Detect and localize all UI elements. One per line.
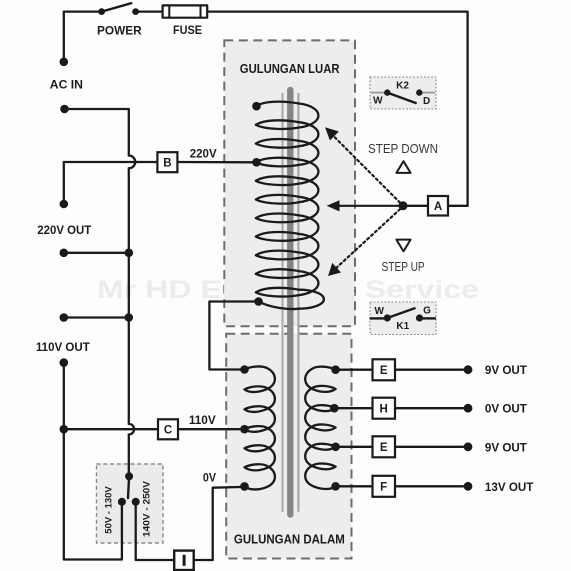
svg-text:W: W xyxy=(374,306,384,317)
terminal dot 9V OUT row2 xyxy=(464,442,473,451)
svg-text:F: F xyxy=(380,482,387,494)
power switch right contact dot xyxy=(132,8,139,15)
arrowhead of solid tap arrow xyxy=(327,200,340,211)
transformer core lamination right thin bar xyxy=(297,93,299,512)
wire: 0V tap to H box xyxy=(334,407,372,409)
step-up triangle symbol xyxy=(396,240,410,252)
wire hop: center rail over 110V wire xyxy=(129,424,134,435)
selector contact dot 140V-250V xyxy=(132,498,140,506)
inner right coil 9V tap dot row2 xyxy=(331,443,340,452)
junction dot center rail 220V row xyxy=(125,249,134,258)
inner left coil top tap dot xyxy=(240,365,249,374)
wire: 220V line from 220V OUT tee to B box xyxy=(64,162,158,204)
svg-text:50V - 130V: 50V - 130V xyxy=(104,486,115,534)
inner winding right coil xyxy=(305,367,335,489)
svg-text:140V - 250V: 140V - 250V xyxy=(142,480,153,537)
inner right coil 13V tap dot xyxy=(331,482,340,491)
wire: power switch to fuse xyxy=(136,10,163,12)
terminal box H xyxy=(373,398,396,419)
terminal dot 110V OUT lower xyxy=(60,358,69,367)
svg-text:GULUNGAN DALAM: GULUNGAN DALAM xyxy=(234,532,345,547)
terminal box E row1 xyxy=(373,359,396,380)
power switch left contact dot xyxy=(98,8,105,15)
wire: C box to inner coil 110V tap xyxy=(178,428,245,430)
svg-text:K1: K1 xyxy=(396,321,409,332)
svg-text:A: A xyxy=(434,201,442,213)
wire: left rail from 110V OUT lower terminal to bottom xyxy=(64,363,122,560)
outer winding coil xyxy=(256,102,324,309)
inner right coil 9V tap dot row1 xyxy=(331,365,340,374)
power switch lever xyxy=(102,3,132,11)
svg-text:B: B xyxy=(163,158,171,170)
svg-text:G: G xyxy=(423,306,431,317)
inner winding left coil xyxy=(245,366,275,489)
svg-text:220V OUT: 220V OUT xyxy=(37,223,92,237)
wire: H box to 0V OUT terminal xyxy=(395,407,468,409)
inner left coil 110V tap dot xyxy=(240,425,249,434)
voltage selector dashed box xyxy=(97,464,164,543)
svg-text:9V OUT: 9V OUT xyxy=(485,440,528,454)
step-down triangle symbol xyxy=(396,161,410,173)
wire: 110V OUT upper terminal link xyxy=(64,316,129,318)
svg-text:POWER: POWER xyxy=(97,24,142,38)
svg-text:AC IN: AC IN xyxy=(50,78,83,92)
wire: 13V tap to F box xyxy=(336,485,373,487)
svg-text:220V: 220V xyxy=(190,146,217,160)
svg-text:0V: 0V xyxy=(203,470,216,484)
wire: A box to node A xyxy=(403,205,428,207)
arrowhead of step-up arrow xyxy=(328,263,341,276)
wire: AC IN lower terminal to center rail xyxy=(65,109,129,156)
fuse end cap left xyxy=(168,5,170,17)
junction dot left rail 110V tee xyxy=(60,425,69,434)
wire: 9V tap to E box row1 xyxy=(336,369,373,371)
step-down dashed arrow xyxy=(332,135,400,203)
arrowhead of step-down arrow xyxy=(325,127,339,140)
terminal box E row2 xyxy=(373,436,396,457)
wire: top feed from AC IN to power switch xyxy=(64,12,102,62)
wire hop: center rail over 220V wire xyxy=(129,156,135,169)
terminal box I xyxy=(174,551,194,570)
transformer core lamination left thin bar xyxy=(282,93,284,512)
switch K2 dashed box xyxy=(370,77,436,109)
wire: fuse to right rail xyxy=(207,12,467,206)
winding enclosure GULUNGAN LUAR dashed box xyxy=(224,40,355,326)
outer coil 220V tap dot xyxy=(252,158,261,167)
wire: E box row1 to 9V OUT terminal xyxy=(395,369,468,371)
terminal box B xyxy=(157,152,177,172)
wire: selector 140V-250V contact to I box xyxy=(136,502,174,560)
terminal dot AC IN upper xyxy=(60,58,69,67)
wire: outer coil bottom to inner coil top xyxy=(209,302,258,370)
wire: center rail middle section xyxy=(128,168,130,424)
wire: 220V OUT lower terminal link xyxy=(64,252,129,254)
wire: E box row2 to 9V OUT terminal xyxy=(395,446,468,448)
switch K2 contacts and lever xyxy=(371,89,435,103)
switch K1 dashed box xyxy=(370,302,436,335)
svg-text:H: H xyxy=(380,404,388,416)
terminal dot 13V OUT xyxy=(464,482,473,491)
inner left coil 0V tap dot xyxy=(240,482,249,491)
svg-text:STEP DOWN: STEP DOWN xyxy=(368,141,438,156)
node A dot xyxy=(399,201,408,210)
wire: F box to 13V OUT terminal xyxy=(395,485,468,487)
svg-text:GULUNGAN LUAR: GULUNGAN LUAR xyxy=(240,61,340,76)
terminal box C xyxy=(158,419,178,439)
terminal dot 110V OUT upper xyxy=(60,313,69,322)
terminal dot 0V OUT xyxy=(464,404,473,413)
outer coil bottom tap dot xyxy=(254,297,263,306)
wire: 110V line from left rail tee to C box xyxy=(64,428,158,430)
terminal dot AC IN lower xyxy=(60,105,69,114)
terminal box F xyxy=(373,476,396,497)
wire: I box to 0V riser xyxy=(194,487,245,560)
svg-text:W: W xyxy=(373,96,383,107)
svg-text:110V OUT: 110V OUT xyxy=(36,340,91,354)
wire: B box to outer coil 220V tap xyxy=(177,161,256,164)
svg-text:9V OUT: 9V OUT xyxy=(485,363,528,377)
outer coil top terminal dot xyxy=(252,102,261,111)
svg-text:FUSE: FUSE xyxy=(173,23,202,37)
svg-text:K2: K2 xyxy=(396,81,409,92)
svg-text:E: E xyxy=(380,442,388,454)
wire: 9V tap to E box row2 xyxy=(336,446,373,448)
switch K1 contacts and lever xyxy=(370,308,437,321)
selector common dot xyxy=(125,472,133,480)
junction dot center rail 110V row xyxy=(125,313,134,322)
winding enclosure GULUNGAN DALAM dashed box xyxy=(226,334,351,559)
tap selector arrow solid xyxy=(336,205,403,207)
wire: center rail to selector common xyxy=(128,435,130,477)
selector contact dot 50V-130V xyxy=(118,498,126,506)
svg-text:C: C xyxy=(164,425,172,437)
svg-text:13V OUT: 13V OUT xyxy=(485,480,534,494)
inner right coil 0V tap dot xyxy=(330,404,339,413)
fuse F1 body xyxy=(163,5,208,17)
terminal box A xyxy=(428,196,448,216)
terminal dot 220V OUT lower xyxy=(60,249,69,258)
svg-text:STEP UP: STEP UP xyxy=(382,259,425,274)
svg-text:0V OUT: 0V OUT xyxy=(485,402,528,416)
svg-text:E: E xyxy=(380,365,388,377)
transformer core main bar xyxy=(287,90,293,515)
fuse end cap right xyxy=(200,5,202,17)
svg-text:110V: 110V xyxy=(189,413,216,427)
terminal dot 220V OUT upper xyxy=(60,200,69,209)
selector lever xyxy=(128,476,129,498)
terminal dot 9V OUT row1 xyxy=(464,365,473,374)
svg-text:D: D xyxy=(423,96,430,107)
step-up dashed arrow xyxy=(334,209,400,270)
